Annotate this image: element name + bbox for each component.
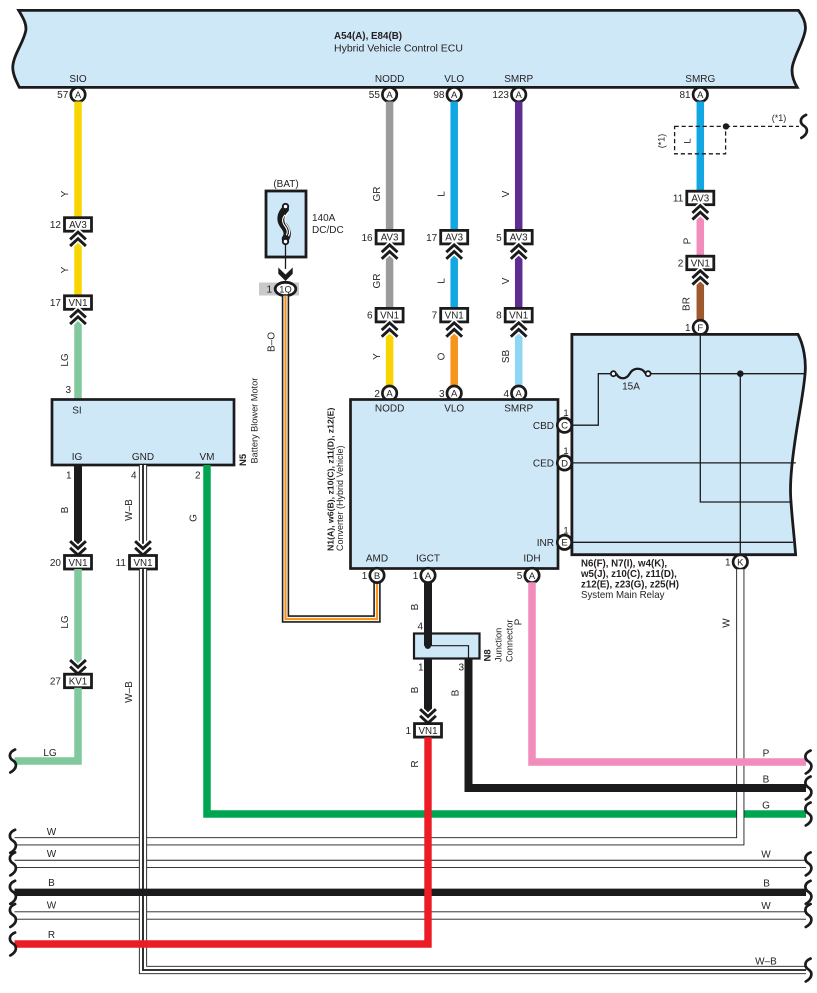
svg-text:A: A [516, 389, 523, 400]
wire W-B from N5 GND pin 4 [139, 465, 147, 555]
svg-text:(BAT): (BAT) [273, 179, 298, 190]
connector 8 VN1 col SMRP [505, 308, 532, 322]
svg-text:w5(J), z10(C), z11(D),: w5(J), z10(C), z11(D), [580, 569, 677, 580]
svg-text:7: 7 [432, 311, 438, 322]
svg-text:D: D [561, 458, 568, 469]
svg-text:N6(F), N7(I), w4(K),: N6(F), N7(I), w4(K), [581, 559, 667, 570]
wire R from 1 VN1 to left edge [15, 737, 429, 944]
wire SB to converter SMRP [515, 323, 523, 387]
svg-text:VN1: VN1 [133, 558, 152, 569]
svg-text:1: 1 [266, 285, 272, 296]
svg-text:A: A [386, 90, 393, 101]
svg-text:LG: LG [43, 748, 57, 759]
svg-text:5: 5 [496, 233, 502, 244]
svg-text:B: B [410, 603, 421, 610]
svg-text:P: P [763, 749, 770, 760]
relay internal wire from C [572, 374, 611, 426]
svg-text:SMRG: SMRG [685, 74, 715, 85]
svg-text:3: 3 [458, 663, 464, 674]
break symbols B bus [10, 881, 16, 904]
break symbols W3 [10, 904, 16, 927]
svg-text:11: 11 [116, 558, 127, 569]
svg-text:VLO: VLO [444, 74, 464, 85]
wire B from N8 pin1 [424, 659, 432, 724]
converter pin CBD C [557, 418, 571, 432]
svg-text:A: A [451, 90, 458, 101]
connector 7 VN1 col VLO [441, 308, 468, 322]
svg-text:5: 5 [517, 571, 523, 582]
break symbol B3 [805, 777, 811, 800]
svg-text:A: A [451, 389, 458, 400]
converter pin NODD 2A [382, 386, 396, 400]
svg-text:3: 3 [65, 385, 71, 396]
svg-text:IDH: IDH [523, 554, 540, 565]
svg-text:SI: SI [72, 406, 81, 417]
relay pin K 1 [733, 555, 747, 569]
svg-text:R: R [48, 930, 55, 941]
svg-text:L: L [437, 191, 448, 197]
svg-text:A: A [529, 571, 536, 582]
component N5 Battery Blower Motor box [52, 400, 234, 466]
svg-text:BR: BR [682, 297, 693, 311]
svg-text:W–B: W–B [124, 681, 135, 703]
component converter (hybrid vehicle) box [351, 400, 559, 569]
svg-text:SMRP: SMRP [504, 404, 533, 415]
connector 27 KV1 [70, 660, 86, 674]
svg-text:55: 55 [369, 90, 381, 101]
svg-text:V: V [501, 190, 512, 197]
svg-text:(*1): (*1) [772, 113, 787, 123]
svg-text:Battery Blower Motor: Battery Blower Motor [250, 378, 260, 464]
wire V from ECU SMRP [515, 102, 523, 232]
wire LG to left edge [15, 688, 79, 761]
component N8 junction connector box [414, 634, 480, 659]
svg-text:1: 1 [362, 571, 368, 582]
svg-text:GR: GR [372, 274, 383, 289]
svg-text:P: P [682, 237, 693, 244]
svg-text:98: 98 [433, 90, 445, 101]
break symbol LG [10, 750, 16, 773]
converter pin AMD B [370, 568, 384, 582]
svg-text:VN1: VN1 [68, 558, 87, 569]
svg-text:16: 16 [361, 233, 373, 244]
svg-text:SB: SB [501, 350, 512, 364]
svg-text:1: 1 [66, 471, 72, 482]
svg-text:Junction: Junction [494, 628, 504, 662]
svg-text:G: G [762, 801, 770, 812]
svg-text:B: B [410, 686, 421, 693]
break symbol W-B [805, 959, 811, 982]
converter pin SMRP 4A [512, 386, 526, 400]
svg-text:A54(A), E84(B): A54(A), E84(B) [334, 31, 402, 42]
break symbol P [805, 751, 811, 774]
wire W from relay K to left edge [15, 569, 741, 841]
svg-text:57: 57 [57, 90, 69, 101]
relay internal wire to K [739, 374, 741, 555]
connector 11 VN1 [135, 541, 151, 555]
relay internal wire from F [700, 334, 791, 502]
wire Y to converter NODD [386, 323, 394, 387]
svg-text:F: F [697, 323, 703, 334]
wire V below AV3 col SMRP [515, 245, 523, 309]
connector 11 AV3 SMRG [687, 191, 714, 205]
svg-text:1: 1 [418, 663, 424, 674]
svg-text:1: 1 [405, 726, 411, 737]
wire B-O from 1Q to converter AMD [286, 296, 378, 619]
svg-text:SIO: SIO [69, 74, 86, 85]
connector 16 AV3 col NODD [376, 230, 403, 244]
wire W-B long run to bottom right [143, 569, 806, 970]
svg-text:3: 3 [439, 389, 445, 400]
svg-text:1: 1 [685, 323, 691, 334]
svg-text:NODD: NODD [375, 404, 404, 415]
svg-text:G: G [189, 514, 200, 522]
wire W bus 3 [15, 911, 807, 919]
connector 5 AV3 col SMRP [505, 230, 532, 244]
svg-text:R: R [410, 760, 421, 767]
svg-text:System Main Relay: System Main Relay [581, 590, 665, 601]
svg-text:W: W [761, 850, 771, 861]
connector 17 VN1 [65, 296, 92, 310]
svg-text:4: 4 [417, 622, 423, 633]
wire P from IDH to right edge [532, 582, 806, 762]
break symbol W1 [10, 830, 16, 853]
svg-text:1: 1 [413, 571, 419, 582]
wire LG below 20 VN1 [74, 569, 82, 675]
svg-text:V: V [501, 277, 512, 284]
svg-text:81: 81 [679, 90, 691, 101]
break symbol dashed [801, 115, 807, 138]
connector 6 VN1 col NODD [376, 308, 403, 322]
svg-text:L: L [683, 138, 694, 143]
svg-text:W–B: W–B [755, 957, 777, 968]
converter pin VLO 3A [447, 386, 461, 400]
break symbol G [805, 803, 811, 826]
svg-text:O: O [437, 352, 448, 360]
svg-text:B: B [451, 689, 462, 696]
svg-text:A: A [516, 90, 523, 101]
wire GR below AV3 col NODD [386, 245, 394, 309]
wire B bus [15, 889, 807, 896]
svg-text:6: 6 [367, 311, 373, 322]
wire from fuse to 1Q [285, 244, 287, 269]
svg-text:N1(A), w6(B), z10(C), z11(D),: N1(A), w6(B), z10(C), z11(D), z12(E) [325, 408, 335, 551]
svg-text:W: W [47, 901, 57, 912]
svg-text:B: B [763, 878, 770, 889]
svg-text:11: 11 [673, 194, 684, 205]
svg-text:W: W [761, 901, 771, 912]
svg-text:A: A [386, 389, 393, 400]
wire L from ECU VLO [450, 102, 458, 232]
svg-text:VM: VM [200, 452, 215, 463]
converter pin CED D [557, 456, 571, 470]
svg-text:P: P [514, 618, 525, 625]
svg-text:W–B: W–B [124, 499, 135, 521]
break symbols W2 [10, 852, 16, 875]
wire W bus 2 [15, 860, 807, 868]
relay internal wire from E [572, 541, 793, 543]
svg-text:1: 1 [563, 446, 568, 457]
svg-text:1: 1 [563, 525, 568, 536]
svg-text:1Q: 1Q [279, 284, 291, 294]
wire LG to N5 SI [74, 310, 82, 400]
svg-text:W: W [47, 849, 57, 860]
connector 1Q [259, 283, 299, 296]
svg-text:LG: LG [60, 353, 71, 367]
svg-text:17: 17 [50, 298, 62, 309]
dashed wire to right [726, 125, 799, 127]
node junction on fuse line [737, 370, 744, 377]
svg-text:DC/DC: DC/DC [312, 225, 344, 236]
svg-text:CBD: CBD [533, 421, 554, 432]
svg-text:2: 2 [374, 389, 380, 400]
wire B from IGCT to N8 [424, 582, 432, 645]
wire B from N5 IG pin 1 [74, 465, 82, 555]
relay pin F 1 [693, 320, 707, 334]
wire GR from ECU NODD [386, 102, 394, 232]
wire L from ECU SMRG [697, 102, 705, 192]
svg-text:INR: INR [537, 538, 554, 549]
svg-text:B–O: B–O [267, 332, 278, 352]
svg-text:L: L [437, 278, 448, 284]
converter pin INR E [557, 535, 571, 549]
svg-text:VLO: VLO [444, 404, 464, 415]
svg-text:GR: GR [372, 187, 383, 202]
svg-text:2: 2 [195, 471, 201, 482]
svg-text:A: A [425, 571, 432, 582]
svg-text:27: 27 [50, 677, 62, 688]
svg-text:IGCT: IGCT [416, 554, 440, 565]
svg-text:(*1): (*1) [657, 134, 667, 149]
wire G from N5 VM pin 2 [207, 465, 806, 814]
fuse 15A [616, 369, 645, 379]
svg-text:140A: 140A [312, 213, 336, 224]
ECU box A54/E84 Hybrid Vehicle Control ECU [13, 10, 806, 87]
svg-text:z12(E), z23(G), z25(H): z12(E), z23(G), z25(H) [581, 580, 679, 591]
relay internal wire from D [572, 462, 796, 464]
svg-text:K: K [737, 557, 744, 568]
svg-text:123: 123 [492, 90, 509, 101]
svg-text:IG: IG [72, 452, 83, 463]
wire O to converter VLO [450, 323, 458, 387]
component system main relay box [572, 334, 805, 554]
connector 12 AV3 [65, 218, 92, 232]
svg-text:C: C [561, 421, 568, 432]
svg-text:AMD: AMD [366, 554, 388, 565]
svg-text:N8: N8 [483, 649, 494, 661]
break symbol R [10, 933, 16, 956]
svg-text:NODD: NODD [375, 74, 404, 85]
svg-text:A: A [75, 90, 82, 101]
node junction inside N8 [425, 643, 431, 649]
svg-text:CED: CED [533, 459, 554, 470]
svg-text:B: B [374, 571, 380, 582]
svg-text:Hybrid Vehicle Control ECU: Hybrid Vehicle Control ECU [334, 43, 463, 55]
svg-text:GND: GND [132, 452, 154, 463]
shield dashed box [675, 126, 726, 153]
svg-text:1: 1 [725, 558, 731, 569]
svg-text:A: A [697, 90, 704, 101]
connector 17 AV3 col VLO [441, 230, 468, 244]
svg-text:Converter (Hybrid Vehicle): Converter (Hybrid Vehicle) [335, 445, 345, 551]
connector 2 VN1 SMRG [687, 256, 714, 270]
svg-text:Y: Y [372, 353, 383, 360]
svg-text:W: W [47, 827, 57, 838]
svg-text:4: 4 [131, 471, 137, 482]
svg-text:B: B [763, 775, 770, 786]
arrow into 1Q [278, 268, 292, 282]
svg-text:B: B [60, 506, 71, 513]
svg-text:KV1: KV1 [69, 677, 88, 688]
svg-text:W: W [722, 618, 733, 628]
svg-text:17: 17 [426, 233, 438, 244]
svg-text:8: 8 [496, 311, 502, 322]
svg-text:1: 1 [563, 408, 568, 419]
wire BR to relay F [697, 271, 705, 321]
svg-text:N5: N5 [238, 453, 249, 466]
connector 1 VN1 bottom [420, 709, 436, 723]
wire Y from SIO 57 [74, 102, 82, 219]
connector 20 VN1 [70, 541, 86, 555]
svg-text:B: B [48, 878, 55, 889]
wire Y below AV3 [74, 232, 82, 297]
wire B from N8 pin3 to right edge [469, 659, 807, 789]
converter pin IDH A [525, 568, 539, 582]
relay internal wire fuse to right edge [651, 373, 805, 375]
wire P below AV3 SMRG [697, 206, 705, 258]
svg-text:LG: LG [60, 615, 71, 629]
node junction on dashed line [723, 123, 729, 129]
wire L below AV3 col VLO [450, 245, 458, 309]
svg-text:4: 4 [503, 389, 509, 400]
svg-text:SMRP: SMRP [504, 74, 533, 85]
svg-text:15A: 15A [622, 382, 640, 393]
svg-text:VN1: VN1 [418, 726, 437, 737]
svg-text:2: 2 [678, 259, 684, 270]
svg-text:20: 20 [50, 558, 62, 569]
svg-text:E: E [561, 538, 567, 549]
svg-text:Y: Y [60, 266, 71, 273]
svg-text:Y: Y [60, 190, 71, 197]
converter pin IGCT A [421, 568, 435, 582]
svg-text:12: 12 [50, 220, 62, 231]
